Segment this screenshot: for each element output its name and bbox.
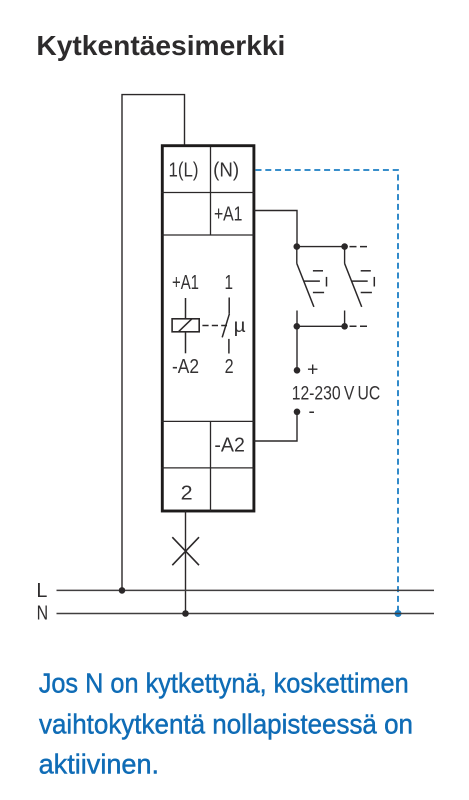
lamp E1 cross stroke 2 — [172, 537, 199, 565]
pushbutton top rail — [297, 246, 345, 248]
terminal column divider (bottom rows) — [210, 421, 212, 511]
pushbutton S1 actuator link — [304, 280, 320, 282]
lamp E1 cross stroke 1 — [172, 537, 199, 565]
svg-text:2: 2 — [181, 482, 193, 504]
svg-text:-A2: -A2 — [172, 356, 199, 378]
pushbutton S2 actuator dash bottom — [361, 292, 372, 294]
pushbutton S2 actuator link — [351, 280, 367, 282]
supply minus node — [294, 409, 301, 416]
junction dot bottom left — [294, 323, 301, 330]
svg-text:aktiivinen.: aktiivinen. — [39, 749, 160, 780]
svg-text:N: N — [37, 602, 49, 624]
wire supply minus to -A2 — [254, 412, 297, 441]
pushbutton S1 lower lead — [296, 311, 298, 327]
L rail — [57, 589, 435, 591]
coil K1 top lead — [185, 298, 187, 319]
terminal column divider (top rows) — [210, 147, 212, 235]
pushbutton S1 upper lead — [296, 247, 298, 264]
pushbutton S1 actuator dash bottom — [313, 292, 324, 294]
svg-text:1(L): 1(L) — [169, 160, 199, 182]
svg-text:vaihtokytkentä nollapisteessä: vaihtokytkentä nollapisteessä on — [39, 709, 413, 740]
dashed actuation link coil to contact — [202, 325, 227, 327]
contact 1-2 top lead — [228, 298, 230, 314]
relay module box U1 — [162, 146, 254, 511]
svg-text:+A1: +A1 — [214, 204, 243, 226]
blue junction dot on N rail — [395, 610, 402, 617]
coil K1 body — [172, 319, 199, 332]
svg-text:1: 1 — [225, 272, 234, 294]
junction dot on L rail — [119, 587, 126, 594]
svg-text:µ: µ — [234, 316, 246, 337]
pushbutton S2 actuator dash top — [361, 270, 371, 272]
wire bottom rail to supply plus — [296, 326, 298, 370]
pushbutton S2 actuator dash right — [373, 277, 375, 287]
svg-text:2: 2 — [225, 356, 234, 378]
junction dot on N rail — [182, 610, 189, 617]
junction dot top right — [341, 243, 348, 250]
junction dot bottom right — [341, 323, 348, 330]
terminal row divider (below -A2 row) — [161, 467, 254, 469]
pushbutton S2 lower lead — [344, 311, 346, 327]
pushbutton bottom rail — [297, 325, 345, 327]
pushbutton S1 actuator dash right — [326, 277, 328, 287]
N rail — [57, 613, 435, 615]
coil K1 diagonal — [178, 319, 192, 332]
ellipsis dashes top rail — [350, 246, 369, 248]
svg-text:-A2: -A2 — [214, 435, 245, 457]
supply plus node — [294, 367, 301, 374]
pushbutton S1 blade — [297, 264, 314, 307]
wire from terminal 1(L) up over to L rail — [122, 95, 185, 591]
contact 1-2 bottom lead — [228, 339, 230, 354]
pushbutton S2 blade — [345, 264, 362, 307]
pushbutton S2 upper lead — [344, 247, 346, 264]
svg-text:Jos N on kytkettynä, koskettim: Jos N on kytkettynä, koskettimen — [39, 668, 409, 699]
junction dot top left — [294, 243, 301, 250]
svg-text:(N): (N) — [213, 160, 239, 182]
terminal row divider (above -A2 row) — [161, 420, 254, 422]
svg-text:+: + — [307, 358, 318, 380]
ellipsis dashes bottom rail — [350, 325, 369, 327]
pushbutton S1 actuator dash top — [313, 270, 323, 272]
terminal row divider (below 1(L)/(N)) — [161, 192, 254, 194]
svg-text:-: - — [309, 402, 315, 423]
svg-text:12-230 V UC: 12-230 V UC — [292, 384, 381, 405]
wire +A1 to pushbutton rail — [254, 211, 297, 247]
svg-text:Kytkentäesimerkki: Kytkentäesimerkki — [36, 30, 285, 61]
svg-text:L: L — [36, 580, 47, 602]
blue dashed wire from (N) to N rail — [256, 170, 399, 611]
coil K1 bottom lead — [185, 332, 187, 354]
terminal row divider (below +A1 row) — [161, 234, 254, 236]
wire terminal 2 to N rail — [185, 511, 187, 614]
contact 1-2 blade — [222, 314, 229, 338]
svg-text:+A1: +A1 — [172, 272, 199, 294]
